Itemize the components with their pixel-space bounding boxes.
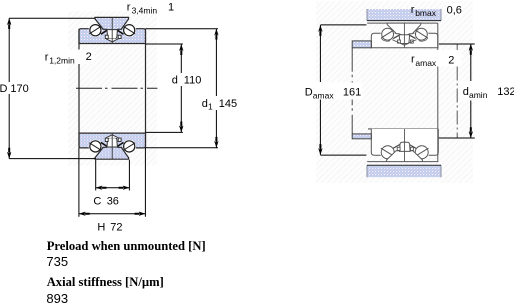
- svg-text:amax: amax: [313, 90, 335, 100]
- svg-text:Preload when unmounted [N]: Preload when unmounted [N]: [47, 239, 206, 253]
- svg-text:r: r: [127, 1, 131, 13]
- svg-text:1: 1: [168, 2, 174, 14]
- svg-text:735: 735: [46, 254, 68, 269]
- svg-text:amin: amin: [469, 90, 488, 100]
- svg-text:161: 161: [343, 87, 361, 99]
- svg-text:2: 2: [86, 51, 92, 63]
- svg-text:72: 72: [110, 222, 122, 234]
- svg-text:H: H: [97, 222, 105, 234]
- svg-text:r: r: [45, 52, 49, 64]
- svg-text:36: 36: [107, 195, 119, 207]
- svg-text:2: 2: [448, 54, 454, 66]
- svg-text:145: 145: [219, 98, 237, 110]
- svg-text:0,6: 0,6: [447, 5, 462, 17]
- svg-text:170: 170: [10, 83, 28, 95]
- svg-text:1,2min: 1,2min: [49, 55, 75, 65]
- svg-text:893: 893: [46, 291, 68, 303]
- svg-text:amax: amax: [415, 58, 437, 68]
- svg-text:3,4min: 3,4min: [132, 6, 158, 16]
- svg-text:r: r: [411, 4, 415, 16]
- svg-text:d: d: [463, 86, 469, 98]
- svg-text:132: 132: [497, 86, 514, 98]
- svg-text:d: d: [202, 98, 208, 110]
- svg-text:1: 1: [208, 101, 213, 111]
- svg-text:D: D: [0, 83, 8, 95]
- svg-text:110: 110: [184, 74, 202, 86]
- svg-text:r: r: [411, 53, 415, 65]
- svg-text:D: D: [305, 87, 313, 99]
- svg-text:d: d: [172, 74, 178, 86]
- svg-text:Axial stiffness [N/µm]: Axial stiffness [N/µm]: [47, 275, 164, 289]
- svg-text:C: C: [93, 195, 101, 207]
- svg-text:bmax: bmax: [415, 8, 437, 18]
